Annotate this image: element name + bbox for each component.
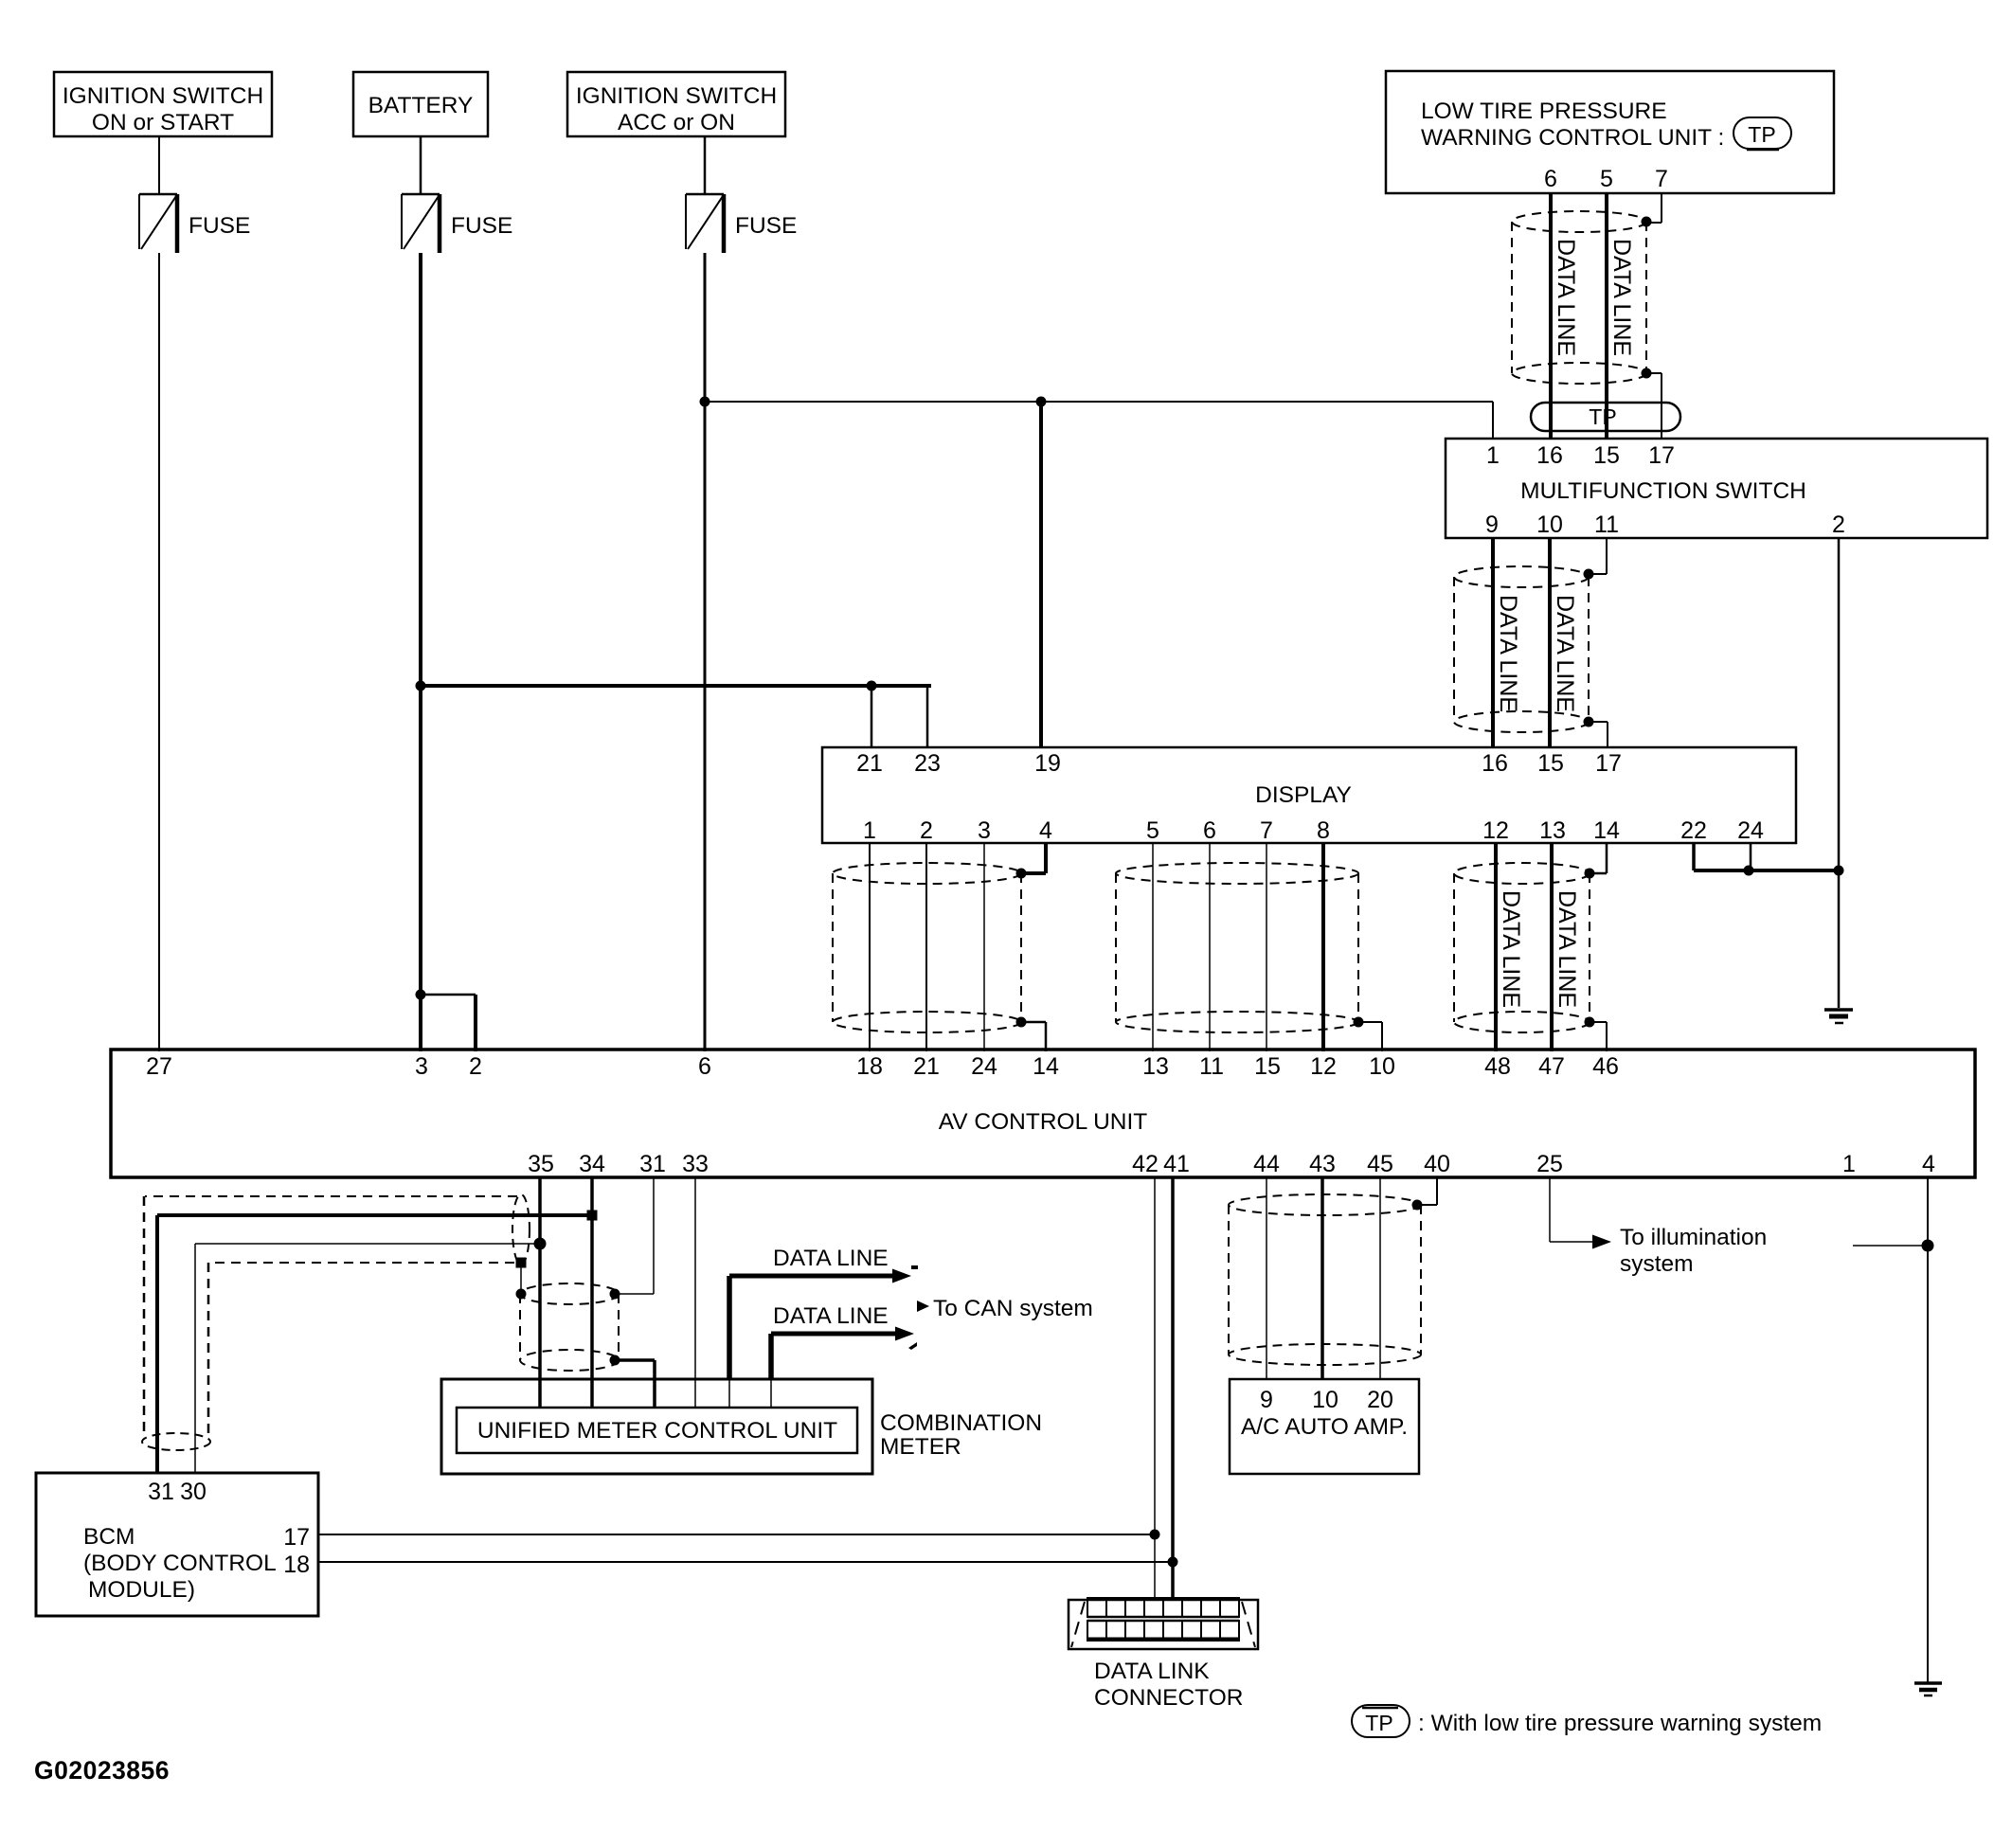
svg-text:MODULE): MODULE) [88, 1577, 195, 1603]
junction dot on wire 41 [1168, 1557, 1178, 1568]
wire: AV pin 1 link [1853, 1245, 1928, 1247]
svg-text:42: 42 [1132, 1151, 1159, 1177]
multifunction switch box [1446, 439, 1987, 538]
svg-text:IGNITION SWITCH: IGNITION SWITCH [63, 83, 263, 109]
wire: multifunction pin 2 down [1838, 538, 1841, 870]
svg-text:31: 31 [148, 1479, 174, 1505]
svg-text:LOW TIRE PRESSURE: LOW TIRE PRESSURE [1421, 99, 1667, 124]
junction dot shield7 top [1412, 1200, 1423, 1211]
BCM pair shield ellipse [142, 1433, 210, 1450]
svg-text:DATA LINE: DATA LINE [1554, 890, 1580, 1008]
svg-text:5: 5 [1600, 166, 1613, 192]
svg-text:1: 1 [1842, 1151, 1856, 1177]
svg-text:43: 43 [1309, 1151, 1336, 1177]
svg-text:35: 35 [528, 1151, 554, 1177]
svg-text:47: 47 [1538, 1053, 1565, 1080]
wire: AV 25 to illumination [1549, 1177, 1551, 1242]
unified meter control unit box [457, 1408, 857, 1453]
ignition switch ACC/ON box [567, 72, 785, 136]
svg-text:48: 48 [1484, 1053, 1511, 1080]
wire: multifunction 11 jog to shield2 [1606, 538, 1608, 574]
junction dot shield6 right top [610, 1289, 620, 1300]
svg-text:12: 12 [1482, 817, 1509, 844]
svg-text:AV CONTROL UNIT: AV CONTROL UNIT [939, 1109, 1148, 1135]
square junction dot on wire 34 [587, 1211, 598, 1221]
svg-text:17: 17 [283, 1524, 310, 1551]
display box [822, 747, 1796, 843]
wire: AV 45 to A/C 20 [1379, 1177, 1381, 1379]
svg-text:: With low tire pressure warni: : With low tire pressure warning system [1418, 1711, 1822, 1736]
svg-text:DISPLAY: DISPLAY [1255, 782, 1352, 808]
AV control unit box [111, 1050, 1975, 1177]
wire: shield3 drain to AV 46 [1590, 1021, 1607, 1023]
wire: branch down to display pin 19 (thick) [1039, 402, 1043, 747]
wire: ACC feed to multifunction pin 1 [705, 401, 1493, 403]
wire: AV 35 down (thick) [538, 1177, 542, 1408]
shield cylinder 4 (display 1-4 group) [833, 863, 1021, 884]
BCM pair thin wire from AV35 [195, 1243, 540, 1245]
wire: battery branch to display pins (thick) [421, 684, 929, 688]
svg-text:45: 45 [1367, 1151, 1393, 1177]
svg-text:40: 40 [1424, 1151, 1450, 1177]
svg-text:12: 12 [1310, 1053, 1337, 1080]
wire: display 5 to AV 13 [1152, 843, 1154, 1051]
svg-text:TP: TP [1365, 1711, 1392, 1735]
arrowhead illumination [1592, 1235, 1611, 1249]
wire: low-tire pin 5 to multifunction 15 (thick) [1605, 193, 1608, 439]
fuse F3 (ignition ACC) [686, 193, 724, 196]
BCM shield end ellipse [512, 1194, 530, 1265]
svg-text:13: 13 [1142, 1053, 1169, 1080]
wire: shield2 drain to display 17 [1589, 721, 1608, 723]
wire: multifunction 10 to display 15 (thick) [1548, 538, 1552, 747]
svg-text:DATA LINE: DATA LINE [773, 1303, 889, 1329]
wire: display 7 to AV 15 [1266, 843, 1267, 1051]
BCM pair thick wire from AV34 [157, 1213, 592, 1217]
svg-text:UNIFIED METER CONTROL UNIT: UNIFIED METER CONTROL UNIT [477, 1418, 837, 1444]
wire: fuse1 to AV pin 27 [158, 253, 160, 1051]
svg-text:22: 22 [1680, 817, 1707, 844]
DATA LINE wire 2 (thick) [768, 1334, 774, 1379]
svg-text:25: 25 [1536, 1151, 1563, 1177]
wire: display 13 to AV 47 (thick) [1550, 843, 1554, 1051]
arrowhead data line 1 [892, 1269, 911, 1283]
ignition switch ON/START box [54, 72, 272, 136]
wire: display 2 to AV 21 [925, 843, 927, 1051]
combination meter box [441, 1379, 872, 1474]
svg-text:13: 13 [1539, 817, 1566, 844]
svg-text:3: 3 [978, 817, 991, 844]
fuse F2 (battery) [402, 193, 440, 196]
wire: AV 44 to A/C 9 [1266, 1177, 1267, 1379]
wire: low-tire pin 6 to multifunction 16 (thick) [1549, 193, 1553, 439]
wire: AV 34 down (thick) [590, 1177, 594, 1408]
svg-text:10: 10 [1312, 1387, 1338, 1413]
svg-text:6: 6 [1203, 817, 1216, 844]
TP legend oval [1352, 1705, 1410, 1737]
wire: BCM 18 to data link 41 [318, 1561, 1173, 1563]
wire: AV 33 down [694, 1177, 696, 1408]
data link connector [1069, 1600, 1258, 1649]
svg-text:1: 1 [863, 817, 876, 844]
BCM box [36, 1473, 318, 1616]
svg-text:27: 27 [146, 1053, 172, 1080]
wire: corner down to display pin 23 [926, 686, 929, 747]
svg-text:TP: TP [1748, 122, 1775, 147]
DATA LINE wire 1 (thick) [727, 1276, 732, 1379]
arrowhead data line 2 [895, 1327, 914, 1341]
junction dot on wire 42 [1150, 1530, 1160, 1540]
svg-text:2: 2 [469, 1053, 482, 1080]
junction dot shield3 bottom [1585, 1017, 1595, 1028]
wire: shield1 drain to multifunction 17 [1646, 372, 1662, 374]
wire: shield7 drain to AV 40 [1417, 1204, 1437, 1206]
wire stubs inside meter box [728, 1379, 730, 1408]
wire: display 24 to ground bus [1750, 843, 1752, 870]
junction dot shield1 bottom [1642, 368, 1652, 379]
svg-text:IGNITION SWITCH: IGNITION SWITCH [576, 83, 777, 109]
junction dot on wire 35 [534, 1238, 547, 1250]
svg-text:5: 5 [1146, 817, 1159, 844]
svg-text:19: 19 [1034, 750, 1061, 777]
wire: multifunction 9 to display 16 (thick) [1491, 538, 1495, 747]
wire: display 14 jog to shield3 [1606, 843, 1608, 873]
junction dot shield3 top [1585, 869, 1595, 879]
svg-text:DATA LINE: DATA LINE [1608, 239, 1635, 356]
svg-text:16: 16 [1482, 750, 1508, 777]
wire: display 12 to AV 48 (thick) [1494, 843, 1498, 1051]
svg-text:21: 21 [913, 1053, 940, 1080]
shield cylinder 7 (A/C group) [1229, 1194, 1421, 1215]
svg-text:8: 8 [1317, 817, 1330, 844]
svg-text:21: 21 [856, 750, 883, 777]
shield cylinder 2 (multifunction-display) [1454, 566, 1589, 587]
TP oval symbol in low tire box [1734, 117, 1791, 149]
wire: AV 31 down [653, 1177, 655, 1294]
svg-text:6: 6 [1544, 166, 1557, 192]
junction dot shield2 top [1584, 569, 1594, 580]
svg-text:11: 11 [1199, 1053, 1224, 1080]
svg-text:15: 15 [1593, 442, 1620, 469]
svg-text:A/C AUTO AMP.: A/C AUTO AMP. [1241, 1414, 1408, 1440]
svg-text:17: 17 [1595, 750, 1622, 777]
ground symbol G1 [1824, 1008, 1853, 1012]
junction dot shield6 right bottom [610, 1355, 620, 1366]
svg-text:30: 30 [180, 1479, 207, 1505]
svg-text:46: 46 [1592, 1053, 1619, 1080]
svg-text:24: 24 [971, 1053, 997, 1080]
svg-text:11: 11 [1594, 511, 1619, 538]
wire: AV 43 to A/C 10 (thick) [1320, 1177, 1324, 1379]
wire: shield4 drain to AV 14 [1021, 1021, 1046, 1024]
wire: shield6 drain to meter (thick) [615, 1358, 655, 1362]
wire: display 1 to AV 18 [869, 843, 871, 1051]
svg-text:23: 23 [914, 750, 941, 777]
svg-text:DATA LINE: DATA LINE [1498, 890, 1524, 1008]
svg-text:17: 17 [1648, 442, 1675, 469]
svg-text:14: 14 [1593, 817, 1620, 844]
wire: low-tire pin 7 jog to shield [1661, 193, 1662, 223]
wire: display 22 to ground bus [1692, 843, 1696, 870]
svg-text:DATA LINE: DATA LINE [1552, 595, 1578, 712]
svg-text:33: 33 [682, 1151, 709, 1177]
BCM shield dashed outer [145, 1195, 517, 1197]
svg-text:6: 6 [698, 1053, 711, 1080]
wire: AV 42 down to connector [1154, 1177, 1156, 1600]
svg-text:15: 15 [1537, 750, 1564, 777]
wire: ground bus down to ground G1 [1838, 870, 1841, 1008]
svg-text:4: 4 [1039, 817, 1052, 844]
wire: fuse3 to AV pin 6 [704, 253, 707, 1051]
junction dot shield5 bottom [1354, 1017, 1364, 1028]
svg-text:3: 3 [415, 1053, 428, 1080]
svg-text:DATA LINE: DATA LINE [1495, 595, 1521, 712]
wire: branch down to display pin 21 [871, 686, 873, 747]
fuse F1 (ignition ON/START) [139, 193, 177, 196]
svg-text:15: 15 [1254, 1053, 1281, 1080]
svg-text:41: 41 [1163, 1151, 1190, 1177]
wire: display 6 to AV 11 [1209, 843, 1211, 1051]
svg-text:COMBINATION: COMBINATION [880, 1410, 1042, 1436]
junction dot ground bus 24 [1744, 866, 1754, 876]
small arrow to CAN system [917, 1301, 929, 1312]
wire: fuse2 to AV pin 3 (thick) [419, 253, 422, 1051]
svg-text:24: 24 [1737, 817, 1764, 844]
junction dot pin1/4 [1922, 1240, 1934, 1252]
wire: battery jog to AV pin 2 (thick) [421, 994, 476, 996]
junction dot battery branch to AV 2 [416, 990, 426, 1000]
wire: display 8 to AV 12 (thick) [1321, 843, 1325, 1051]
svg-text:FUSE: FUSE [735, 213, 797, 239]
svg-text:7: 7 [1655, 166, 1668, 192]
wire: ignition1 to fuse1 [158, 136, 160, 194]
TP connector oval [1531, 403, 1680, 431]
svg-text:TP: TP [1589, 404, 1616, 429]
svg-text:2: 2 [920, 817, 933, 844]
svg-text:9: 9 [1260, 1387, 1273, 1413]
svg-text:(BODY CONTROL: (BODY CONTROL [83, 1551, 277, 1576]
svg-text:7: 7 [1260, 817, 1273, 844]
svg-text:9: 9 [1485, 511, 1499, 538]
shield cylinder 6 (AV 35/34 pair) [520, 1283, 619, 1304]
svg-text:10: 10 [1369, 1053, 1395, 1080]
shield cylinder 1 (data line pair top) [1512, 211, 1646, 232]
BCM shield dashed inner [208, 1262, 514, 1264]
square junction dot on shield drain [516, 1258, 527, 1268]
svg-text:BCM: BCM [83, 1524, 135, 1550]
svg-text:31: 31 [639, 1151, 666, 1177]
svg-text:10: 10 [1536, 511, 1563, 538]
wire: battery to fuse2 [420, 136, 422, 194]
svg-text:2: 2 [1832, 511, 1845, 538]
svg-text:ACC or ON: ACC or ON [618, 110, 735, 135]
junction dot battery branch to display [416, 681, 426, 691]
svg-text:4: 4 [1922, 1151, 1935, 1177]
svg-text:DATA LINE: DATA LINE [773, 1246, 889, 1271]
svg-text:18: 18 [283, 1552, 310, 1578]
junction dot on ACC wire [700, 397, 710, 407]
shield cylinder 5 (display 5-8 group) [1116, 863, 1358, 884]
ground symbol G2 [1914, 1681, 1942, 1685]
wire: shield5 drain to AV 10 [1358, 1021, 1382, 1023]
junction dot shield4 bottom [1016, 1017, 1027, 1028]
svg-text:G02023856: G02023856 [34, 1756, 170, 1785]
svg-text:MULTIFUNCTION SWITCH: MULTIFUNCTION SWITCH [1520, 478, 1806, 504]
svg-text:system: system [1620, 1251, 1694, 1277]
wire: AV 4 down to ground (thin) [1927, 1177, 1929, 1682]
svg-text:BATTERY: BATTERY [368, 93, 474, 118]
svg-text:DATA LINE: DATA LINE [1553, 239, 1579, 356]
junction dot display21 branch [867, 681, 877, 691]
battery box [353, 72, 488, 136]
wire: AV 41 down to connector (thick) [1171, 1177, 1175, 1600]
svg-text:34: 34 [579, 1151, 605, 1177]
svg-text:20: 20 [1367, 1387, 1393, 1413]
junction dot shield4 top [1016, 869, 1027, 879]
svg-text:METER: METER [880, 1434, 961, 1460]
svg-text:18: 18 [856, 1053, 883, 1080]
svg-text:WARNING CONTROL UNIT :: WARNING CONTROL UNIT : [1421, 125, 1724, 151]
wire: display 4 jog to shield4 (thick) [1044, 843, 1048, 873]
junction dot shield1 top [1642, 217, 1652, 227]
tick mark after data line 2 arrow [908, 1342, 917, 1350]
svg-text:FUSE: FUSE [451, 213, 512, 239]
svg-text:FUSE: FUSE [189, 213, 250, 239]
ground bus wire (thick) [1694, 869, 1839, 872]
svg-text:44: 44 [1253, 1151, 1280, 1177]
svg-text:ON or START: ON or START [92, 110, 234, 135]
junction dot shield2 bottom [1584, 717, 1594, 727]
wire: BCM 17 to data link 42 [318, 1534, 1155, 1535]
svg-text:To illumination: To illumination [1620, 1225, 1767, 1250]
junction dot ground bus 2 [1834, 866, 1844, 876]
shield cylinder 3 (data line pair lower) [1454, 863, 1590, 884]
svg-text:16: 16 [1536, 442, 1563, 469]
svg-text:CONNECTOR: CONNECTOR [1094, 1685, 1243, 1711]
svg-text:1: 1 [1486, 442, 1500, 469]
shield drain link [520, 1263, 522, 1294]
junction dot display19 branch [1036, 397, 1047, 407]
low tire pressure warning control unit box [1386, 71, 1834, 193]
svg-text:14: 14 [1033, 1053, 1059, 1080]
wire: display 3 to AV 24 [983, 843, 985, 1051]
svg-text:DATA LINK: DATA LINK [1094, 1659, 1210, 1684]
wire: ignition2 to fuse3 [704, 136, 707, 194]
svg-text:To CAN system: To CAN system [933, 1296, 1093, 1321]
A/C auto amp box [1230, 1379, 1419, 1474]
junction dot shield6 left [516, 1289, 527, 1300]
tick mark after data line 1 arrow [911, 1265, 918, 1269]
